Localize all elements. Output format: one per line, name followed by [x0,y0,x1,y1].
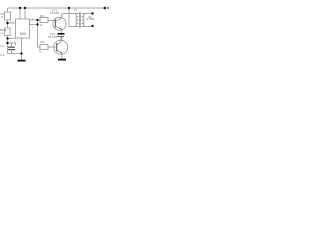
svg-text:555: 555 [20,32,26,36]
svg-text:КТ315: КТ315 [50,11,59,15]
svg-text:7к: 7к [39,50,43,54]
svg-text:1к: 1к [40,23,44,27]
svg-text:0,1: 0,1 [0,53,5,57]
svg-text:R3: R3 [40,14,44,18]
svg-text:1: 1 [17,40,19,42]
svg-text:0,5ГД: 0,5ГД [87,17,96,21]
svg-text:Т1: Т1 [74,8,78,12]
svg-text:R4: R4 [41,40,45,44]
svg-text:C1: C1 [0,44,4,48]
svg-text:КТ315: КТ315 [48,35,57,39]
svg-text:3: 3 [32,27,34,29]
